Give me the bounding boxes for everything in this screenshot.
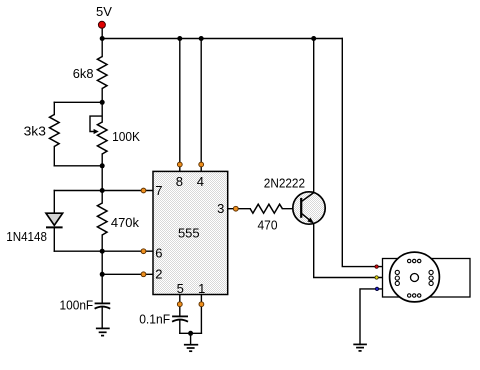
ground G3 (353, 344, 367, 351)
wire rail to R 6k8 (101, 39, 103, 57)
motor yellow terminal (375, 276, 378, 279)
wire collector riser (313, 39, 315, 193)
svg-text:8: 8 (176, 174, 183, 189)
wire R 6k8 to node (101, 89, 103, 103)
svg-text:0.1nF: 0.1nF (139, 311, 170, 326)
wire blue terminal to ground (360, 289, 383, 345)
transistor base bar (300, 198, 302, 218)
op-amp? no: IC 555 body (153, 171, 228, 294)
wire to pin 2 (102, 273, 153, 275)
ground G1 (96, 328, 110, 335)
potentiometer 100K wiper bracket (90, 116, 102, 131)
wire 3k3 bottom horizontal (54, 165, 102, 167)
motor M1 face circle (390, 252, 440, 302)
resistor 470k (97, 203, 107, 235)
potentiometer 100K resistor body (97, 122, 107, 154)
svg-text:2: 2 (155, 266, 162, 281)
wire pin 3 out (228, 208, 251, 210)
svg-text:7: 7 (155, 183, 162, 198)
wire diode bottom vertical (53, 227, 55, 251)
resistor 470 (250, 204, 282, 213)
node top rail at left rail (100, 36, 105, 41)
wire rail to pin7 node (101, 166, 103, 191)
node pin6 row (100, 249, 105, 254)
node top rail pin4 (199, 36, 204, 41)
svg-text:100nF: 100nF (60, 297, 94, 312)
motor M1 body (383, 259, 471, 298)
wire top power rail (102, 38, 342, 40)
svg-text:100K: 100K (112, 129, 140, 144)
wire pin 5 to cap (179, 295, 181, 317)
node top rail collector (311, 36, 316, 41)
transistor emitter lead (301, 213, 311, 221)
wire diode bottom horizontal (54, 250, 102, 252)
pin 7 terminal (141, 188, 146, 193)
pin 5 terminal (177, 302, 182, 307)
svg-text:1N4148: 1N4148 (6, 229, 47, 244)
svg-text:2N2222: 2N2222 (264, 176, 305, 191)
power terminal 5V (98, 21, 105, 28)
wire to pin 6 (102, 250, 153, 252)
wire pin 4 riser (200, 39, 202, 172)
svg-text:3k3: 3k3 (24, 124, 46, 139)
wire pot top (101, 102, 103, 122)
wire to capacitor 100nF (101, 274, 103, 303)
svg-text:470k: 470k (111, 215, 140, 230)
capacitor 0.1nF bottom curved plate (172, 320, 188, 322)
wire 470k bottom (101, 235, 103, 251)
transistor emitter arrowhead (307, 218, 314, 224)
wire 0.1nF down (179, 320, 181, 333)
motor hole top row (408, 259, 421, 262)
node 555 ground tie (188, 331, 193, 336)
wire red motor branch (342, 39, 382, 267)
svg-text:6: 6 (155, 246, 162, 261)
transistor Q1 2N2222 body circle (293, 192, 325, 224)
wire 100nF to ground (101, 307, 103, 329)
svg-text:4: 4 (197, 174, 204, 189)
node pin2 row (100, 272, 105, 277)
wire bottom tie (180, 332, 202, 334)
capacitor 100nF top plate (95, 302, 111, 304)
motor hole bottom row (408, 294, 421, 297)
pin 4 terminal (199, 162, 204, 167)
wire 5V stub (101, 25, 103, 39)
wire 3k3 bottom vertical (53, 147, 55, 166)
svg-text:1: 1 (198, 281, 205, 296)
wire pin 1 down (200, 295, 202, 334)
svg-text:3: 3 (217, 201, 224, 216)
svg-text:470: 470 (258, 218, 278, 233)
node below 6k8 (100, 100, 105, 105)
wire diode top horizontal (54, 190, 102, 192)
wire emitter to yellow terminal (314, 224, 383, 278)
svg-text:6k8: 6k8 (73, 66, 94, 81)
potentiometer 100K wiper arrowhead (94, 129, 99, 134)
svg-text:5: 5 (177, 281, 184, 296)
wire 470 to base (282, 208, 300, 210)
ground G2 (184, 345, 198, 352)
motor hole right column (429, 270, 433, 285)
node top rail pin8 (177, 36, 182, 41)
diode 1N4148 anode triangle (46, 213, 63, 225)
transistor collector lead (301, 193, 314, 202)
resistor 6k8 (97, 57, 107, 89)
wire pot bottom (101, 154, 103, 166)
motor blue terminal (375, 287, 378, 290)
wire rail pin6 to pin2 node (101, 251, 103, 274)
motor shaft circle (411, 274, 419, 282)
motor red terminal (375, 265, 378, 268)
pin 2 terminal (141, 272, 146, 277)
wire 3k3 top vertical (53, 102, 55, 114)
pin 1 terminal (199, 302, 204, 307)
capacitor 100nF bottom curved plate (95, 307, 111, 309)
motor hole left column (395, 270, 399, 285)
wire diode top vertical (53, 191, 55, 214)
pin 6 terminal (141, 249, 146, 254)
node below pot (100, 163, 105, 168)
pin 3 terminal (233, 206, 238, 211)
wire pin 8 riser (179, 39, 181, 172)
pin 8 terminal (177, 162, 182, 167)
node pin7 row (100, 188, 105, 193)
diode 1N4148 cathode bar (46, 226, 63, 228)
resistor 3k3 (50, 115, 60, 147)
svg-text:5V: 5V (96, 4, 112, 19)
capacitor 0.1nF top plate (172, 315, 188, 317)
wire 470k top (101, 191, 103, 204)
svg-text:555: 555 (178, 226, 200, 241)
wire gnd stub 555 (190, 333, 192, 344)
wire 3k3 top horizontal (54, 101, 102, 103)
wire to pin 7 (102, 190, 153, 192)
